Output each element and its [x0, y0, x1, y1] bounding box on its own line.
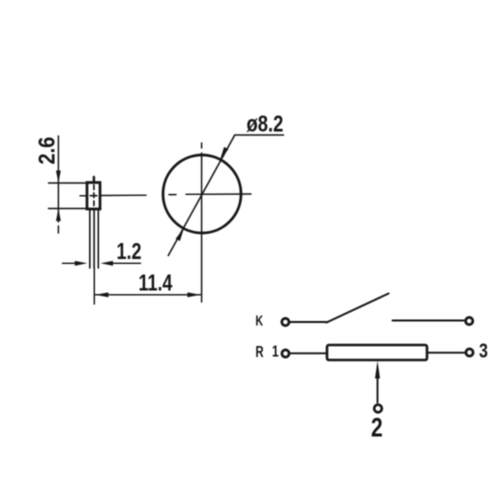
schematic: resistor R left wire: [290, 352, 327, 354]
svg-text:1: 1: [272, 342, 279, 360]
dimension 2.6 extension line (top): [49, 182, 87, 184]
dimension 1.2 arrowhead (right-pointing): [75, 261, 88, 266]
diameter dimension diagonal line: [168, 136, 234, 256]
svg-text:11.4: 11.4: [139, 270, 173, 296]
svg-text:R: R: [256, 342, 264, 361]
dimension 1.2 left arrow line: [63, 262, 77, 264]
schematic: wiper arrow line: [377, 372, 379, 403]
dimension 2.6 arrowhead (up): [56, 209, 61, 222]
schematic: resistor R terminal 1: [282, 350, 289, 357]
schematic: resistor R body: [327, 345, 427, 360]
schematic: switch K left wire: [290, 321, 327, 323]
svg-text:3: 3: [479, 340, 488, 362]
dimension 1.2 right arrow line: [113, 262, 141, 264]
diameter leader underline: [235, 134, 284, 136]
svg-text:2: 2: [371, 413, 383, 443]
wiper shaft centerline (dashed, through side view body): [93, 185, 95, 209]
dimension 11.4 extension line (left, from middle pin): [93, 268, 95, 304]
schematic: wiper arrowhead (up): [375, 361, 380, 379]
dimension 11.4 arrowhead (left): [95, 292, 108, 297]
side view body (disc edge-on): [87, 183, 100, 210]
schematic: wiper terminal 2: [374, 405, 382, 413]
dimension 2.6 dimension line: [57, 136, 59, 222]
dimension 2.6 extension line (bottom): [49, 208, 87, 210]
diameter arrowhead (upper, pointing to circle edge): [220, 147, 228, 160]
schematic: resistor R right wire: [427, 352, 465, 354]
schematic: switch K blade: [327, 294, 389, 323]
dimension 11.4 dimension line: [95, 294, 200, 296]
schematic: switch K right terminal: [466, 317, 473, 324]
schematic: resistor R terminal 3: [466, 349, 473, 356]
horizontal centerline dash inside side view body: [90, 195, 97, 197]
schematic: switch K left terminal: [282, 318, 289, 325]
wiper shaft tick above body: [93, 177, 95, 182]
front view disc circle: [163, 155, 241, 233]
dimension 2.6 arrowhead (down): [56, 171, 61, 184]
svg-text:ø8.2: ø8.2: [247, 112, 284, 137]
dimension 11.4 arrowhead (right): [187, 292, 200, 297]
pin (left leg): [89, 209, 91, 268]
svg-text:K: K: [256, 312, 264, 329]
pin (middle leg): [93, 209, 95, 268]
svg-text:1.2: 1.2: [117, 239, 142, 265]
horizontal centerline: [80, 195, 86, 197]
schematic: switch K right wire: [393, 320, 465, 322]
svg-text:2.6: 2.6: [33, 137, 60, 165]
pin (right leg): [97, 209, 99, 268]
diameter arrowhead (lower, pointing to circle edge): [176, 229, 184, 242]
vertical centerline: [201, 143, 203, 148]
dimension 1.2 arrowhead (left-pointing): [101, 261, 114, 266]
